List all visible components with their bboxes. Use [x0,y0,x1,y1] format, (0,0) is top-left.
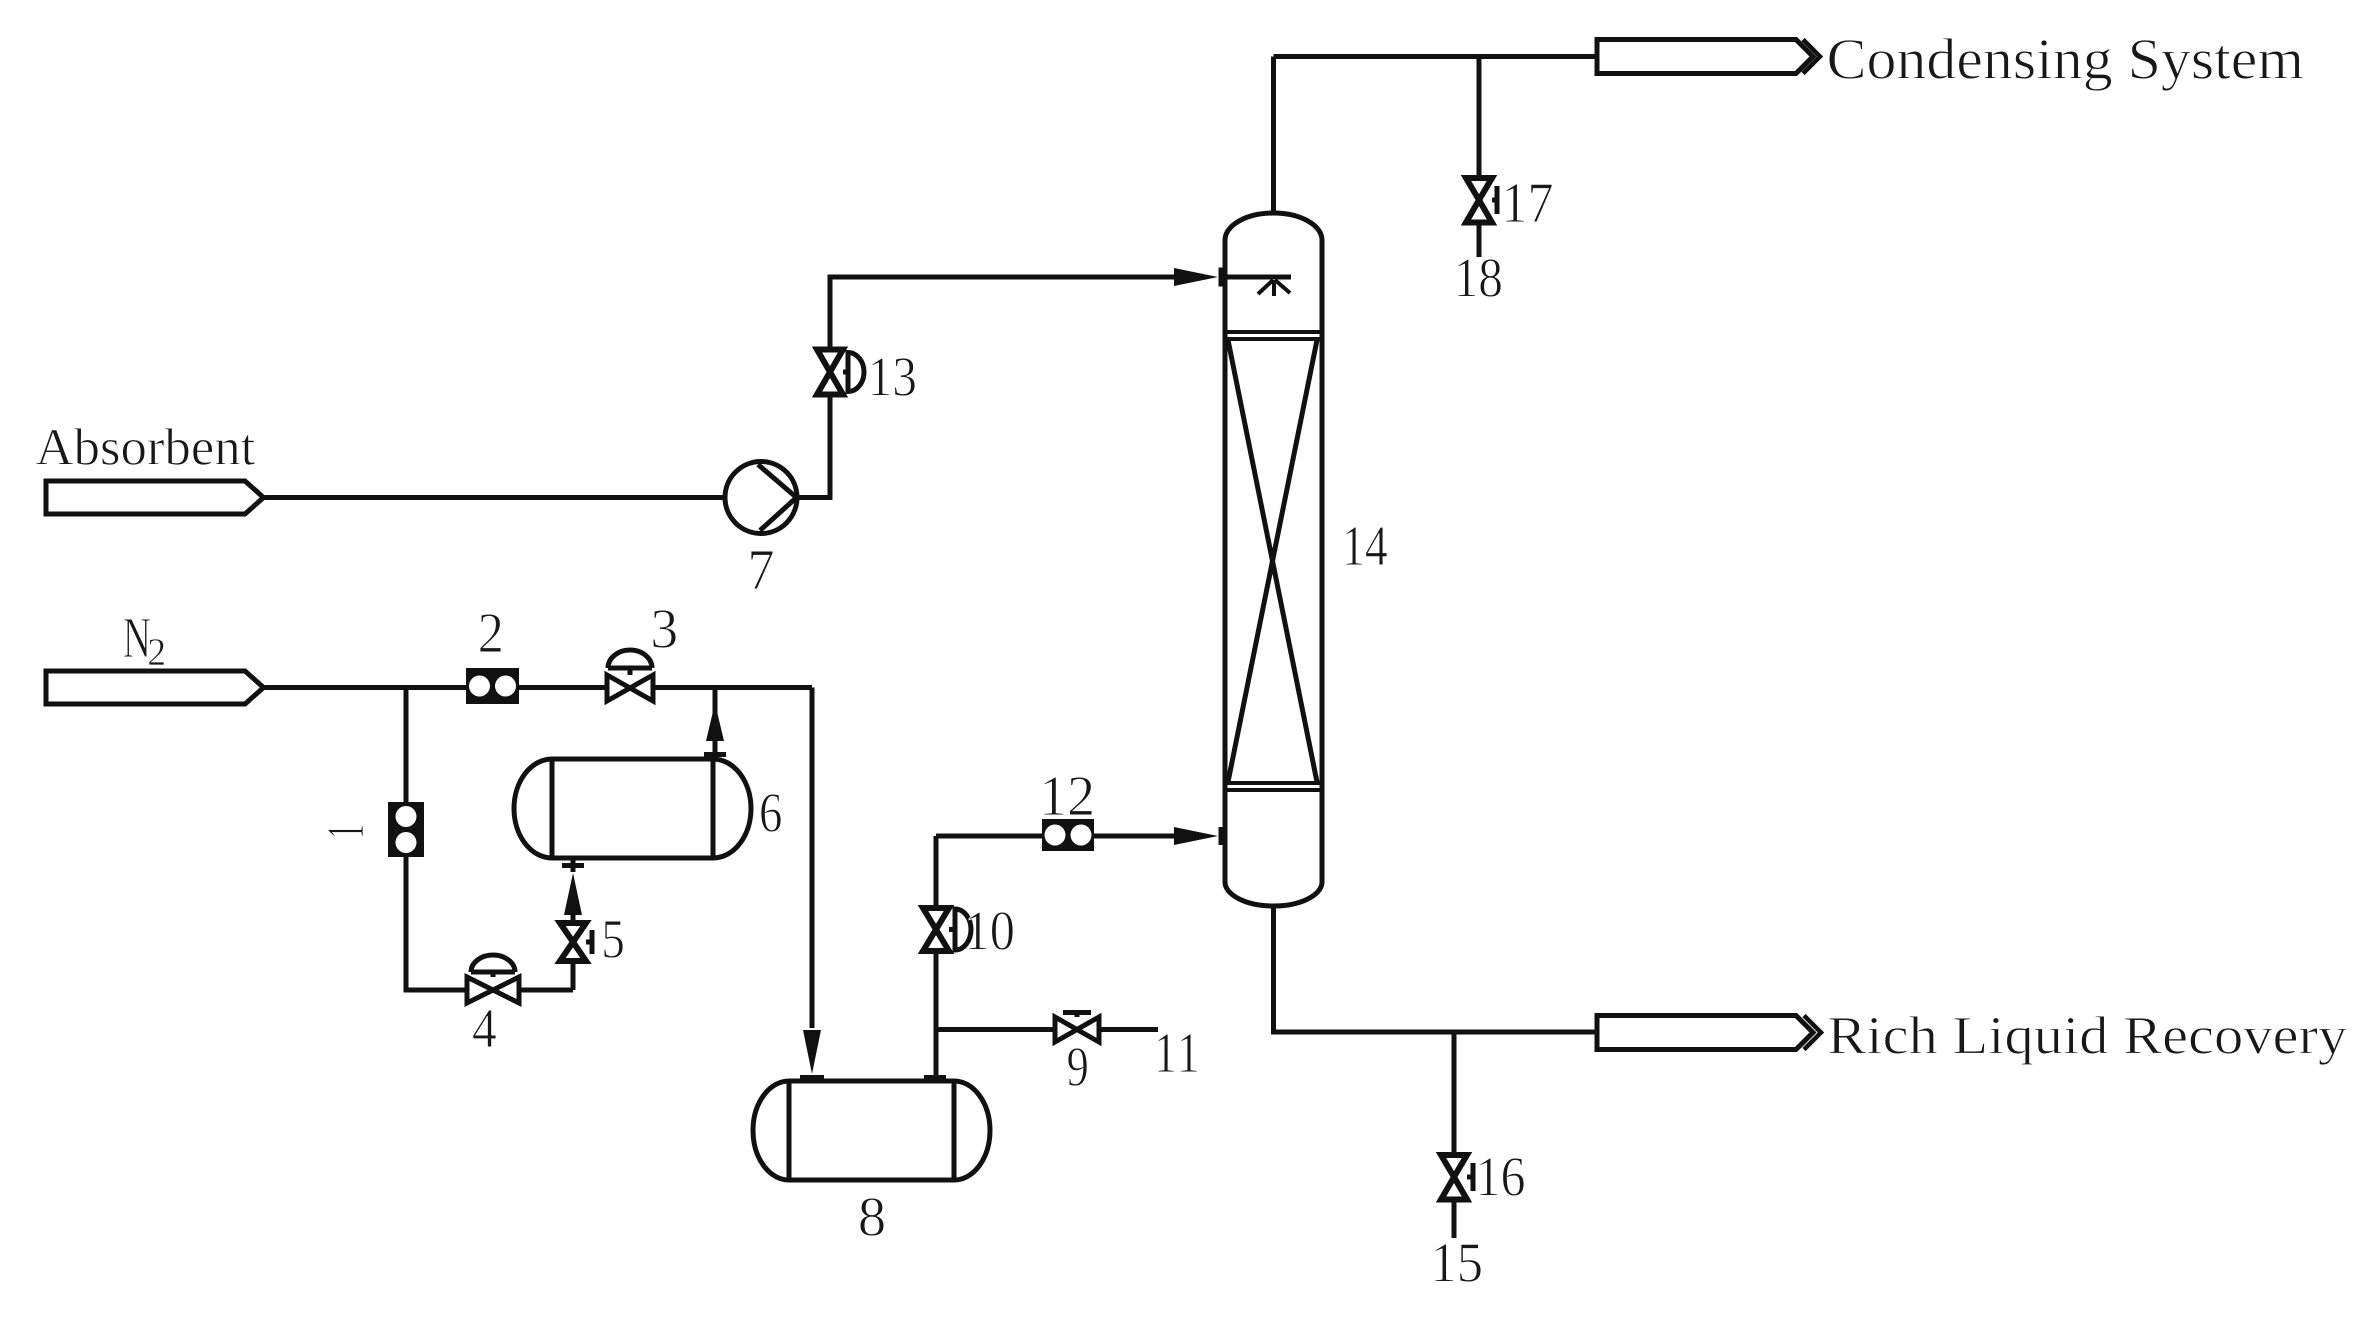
label 12 [1044,777,1092,815]
flow meter 2 [466,668,519,704]
wire branch to valve 9 [936,1027,1158,1032]
node arrow into column bottom feed [1174,827,1218,845]
label 3 [653,610,676,648]
flow meter 1 [388,802,424,857]
label 9 [1068,1048,1087,1086]
column 14 shell [1225,213,1322,882]
inlet banner Absorbent [46,481,264,514]
wire valve 10 line [934,836,939,1077]
label 11 [1158,1034,1197,1072]
pump P7 [725,462,797,534]
wire pump outlet up to column top feed [797,277,1174,498]
label N2 - N [124,619,150,657]
spray nozzle [1258,280,1290,296]
wire absorbent to pump [264,495,727,500]
valve 4 [467,977,519,1003]
wire column bottom to rich liquid line [1274,905,1598,1032]
wire top header to banner [1274,54,1598,59]
label 16 [1480,1158,1524,1196]
outlet banner Rich Liquid Recovery [1597,1016,1813,1050]
valve 3 [607,675,653,701]
node feed arrow into column top [1219,268,1224,287]
valve 5 [560,923,586,961]
valve 13 [817,350,843,395]
wire N2 line corner down to vessel 8 [810,688,815,1029]
label 7 [751,551,773,589]
wire inside column top [1225,275,1291,280]
label 2 [480,614,501,652]
valve 16 [1441,1155,1467,1200]
label 15 [1435,1244,1481,1282]
label 5 [604,921,623,958]
node arrow into column top feed [1174,268,1218,286]
label 13 [872,358,915,396]
column packing section [1225,332,1322,339]
vessel 8 [753,1081,990,1180]
wire below valve 16 [1452,1200,1457,1239]
wire column top stub [1271,57,1276,214]
flow meter 12 [1042,819,1094,851]
label 18 [1458,259,1501,297]
label 1 (rotated) [328,826,363,836]
label N2 - subscript 2 [149,639,164,665]
valve 10 [923,908,949,951]
label Absorbent [36,428,255,465]
label 17 [1506,184,1552,222]
inlet banner N2 [46,671,264,704]
vessel 6 [514,759,751,858]
label 8 [860,1198,884,1236]
outlet banner Condensing System [1597,40,1813,74]
label 6 [761,794,781,832]
label 4 [473,1010,496,1047]
wire below valve 17 [1477,223,1482,258]
valve 9 [1055,1017,1099,1042]
node arrow into vessel 8 left [803,1030,821,1074]
wire branch down to flowmeter 1 and bottom loop [406,688,573,991]
wire branch to valve 17 [1477,57,1482,179]
label 10 [969,912,1013,950]
label Condensing System [1829,38,2303,91]
label 14 [1346,527,1387,565]
label Rich Liquid Recovery [1829,1016,2347,1065]
wire N2 main line [264,685,813,690]
wire valve5 riser [571,961,576,990]
valve 17 [1466,178,1492,223]
wire branch to valve 16 [1452,1032,1457,1155]
node arrow into vessel 6 bottom [564,873,582,915]
wire vessel 6 top to N2 line [713,688,718,760]
wire to flowmeter 12 [936,834,1042,839]
